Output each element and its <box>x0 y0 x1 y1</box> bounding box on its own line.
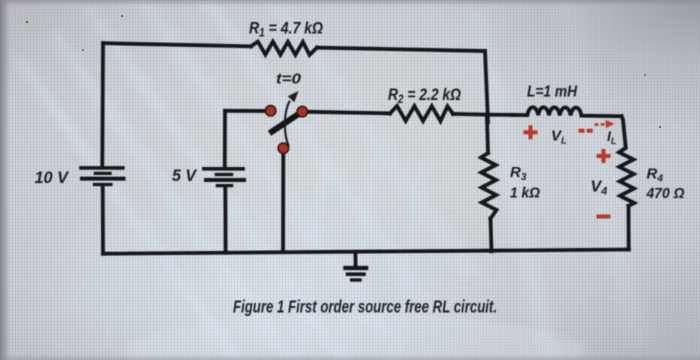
resistor R1 <box>251 42 317 55</box>
wire: middle rail from switch right dot to R2 <box>303 112 390 114</box>
label VL polarity + <box>524 125 538 139</box>
wire: left rail upper <box>100 43 104 166</box>
wire: R3 upper lead <box>487 115 488 153</box>
wire: top rail right of R1 <box>317 48 485 51</box>
battery V2 5V <box>202 169 246 186</box>
svg-text:5 V: 5 V <box>172 166 198 185</box>
wire: corner from inductor down to R4 <box>622 116 626 145</box>
svg-text:Figure 1 First order source fr: Figure 1 First order source free RL circ… <box>233 297 497 317</box>
wire: bottom rail <box>103 250 629 254</box>
wire: middle rail from 5V branch to switch left dot <box>225 109 266 113</box>
wire: switch pole drop to bottom rail <box>281 152 285 251</box>
switch t=0 <box>265 91 307 154</box>
svg-text:1 kΩ: 1 kΩ <box>510 185 540 202</box>
wire: left rail lower <box>101 186 105 254</box>
label V4 polarity + <box>597 149 611 163</box>
wire: R4 lower lead <box>627 206 631 250</box>
switch blade <box>270 109 306 133</box>
wire: 5V branch lower <box>223 186 227 253</box>
resistor R2 <box>390 106 453 121</box>
current arrow IL <box>595 123 610 126</box>
resistor R3 <box>481 153 497 219</box>
label VL polarity - <box>579 129 594 133</box>
inductor L1 <box>514 107 622 116</box>
wire: R3 lower lead <box>491 219 492 252</box>
wire: 5V branch upper <box>223 111 227 167</box>
svg-text:L=1 mH: L=1 mH <box>527 84 577 101</box>
svg-text:470 Ω: 470 Ω <box>646 185 685 202</box>
switch node dot bottom <box>278 143 288 153</box>
svg-text:10 V: 10 V <box>35 168 70 187</box>
svg-text:t=0: t=0 <box>276 71 302 88</box>
switch arc arrow <box>285 101 290 147</box>
wire: middle rail from R2 to node <box>453 114 514 115</box>
resistor R4 <box>619 146 634 207</box>
ground bars <box>343 268 368 280</box>
wire: right drop from top rail to middle rail <box>485 51 488 122</box>
battery V1 10V <box>79 168 125 185</box>
wire: top rail left of R1 <box>103 43 251 46</box>
label V4 polarity - <box>597 215 611 219</box>
switch node dot right <box>297 106 307 116</box>
ground <box>353 253 357 268</box>
switch node dot left <box>265 106 275 116</box>
